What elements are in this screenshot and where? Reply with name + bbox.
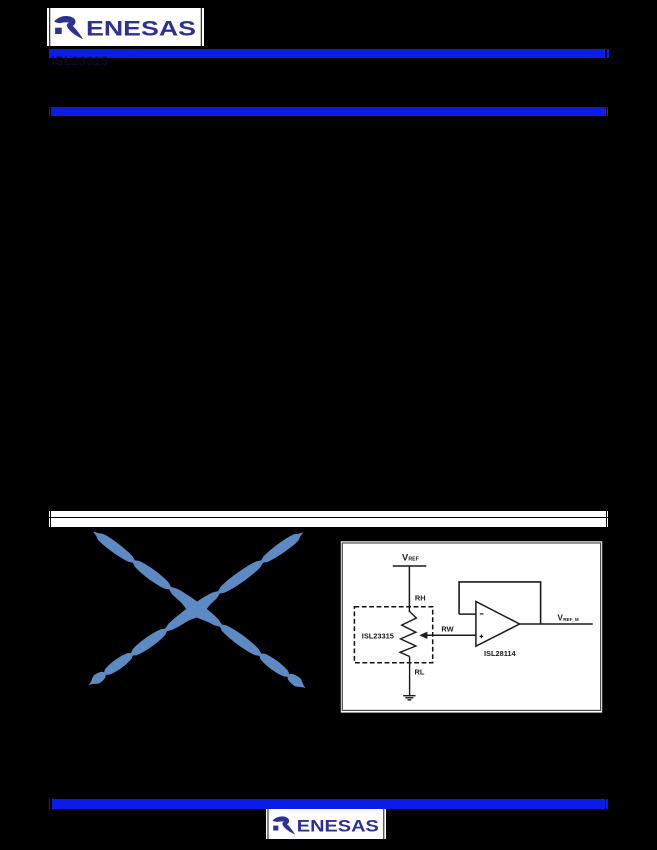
VREF supply rail [393, 565, 427, 567]
svg-text:REF: REF [408, 557, 418, 563]
svg-text:ENESAS: ENESAS [297, 816, 379, 835]
logo frame line right [200, 8, 202, 46]
bottom blue rule end tick [606, 799, 608, 809]
table row 2 (white) [51, 518, 606, 527]
logo R swoosh [54, 16, 83, 39]
top blue rule end tick [607, 49, 609, 58]
table row 2 left tick [49, 518, 50, 527]
logo R square dot + swoosh [272, 816, 295, 834]
bottom blue rule left tick [49, 799, 51, 809]
figure white background [341, 541, 602, 712]
wire RW to op-amp [427, 634, 477, 636]
circuit figure [339, 538, 605, 714]
output wire [520, 623, 593, 625]
op-amp U1 triangle [476, 602, 520, 647]
bottom Renesas logo box [266, 809, 386, 839]
logo frame line left [49, 8, 51, 46]
feedback wire loop [459, 582, 540, 624]
figure border [342, 543, 600, 710]
table row 1 left tick [49, 511, 50, 518]
dashed outline ISL23315 [354, 607, 432, 663]
potentiometer element [400, 612, 416, 657]
wire VREF to RH [408, 566, 410, 612]
logo frame line left [267, 809, 269, 839]
second blue rule left tick [49, 107, 50, 116]
svg-text:RL: RL [415, 668, 425, 677]
svg-text:ISL23315: ISL23315 [362, 631, 394, 640]
svg-text:ISL28114: ISL28114 [484, 649, 517, 658]
svg-text:REF_M: REF_M [563, 617, 579, 622]
wiper arrowhead [419, 632, 427, 639]
second blue rule end tick [607, 107, 608, 116]
bottom blue rule [52, 799, 605, 809]
logo R square dot [55, 28, 62, 34]
svg-text:RW: RW [441, 624, 453, 633]
figure curve stroke 2 (RL) [89, 532, 303, 685]
logo frame line right [383, 809, 385, 839]
table row 1 right tick [607, 511, 608, 518]
figure curve stroke 1 (RH) [94, 532, 306, 689]
second blue rule [51, 107, 606, 116]
curves crossing junction [175, 594, 218, 626]
top Renesas logo box [47, 8, 204, 46]
part number title (dark on black) [52, 55, 109, 67]
top blue rule [49, 49, 605, 58]
wire feedback to inverting input [459, 613, 476, 615]
table row 2 right tick [607, 518, 608, 527]
ground [403, 695, 415, 697]
wire RL to ground [409, 657, 411, 696]
op-amp plus [480, 635, 484, 637]
op-amp minus [480, 613, 484, 615]
svg-text:RH: RH [415, 594, 426, 603]
table row 1 (white) [51, 511, 606, 518]
